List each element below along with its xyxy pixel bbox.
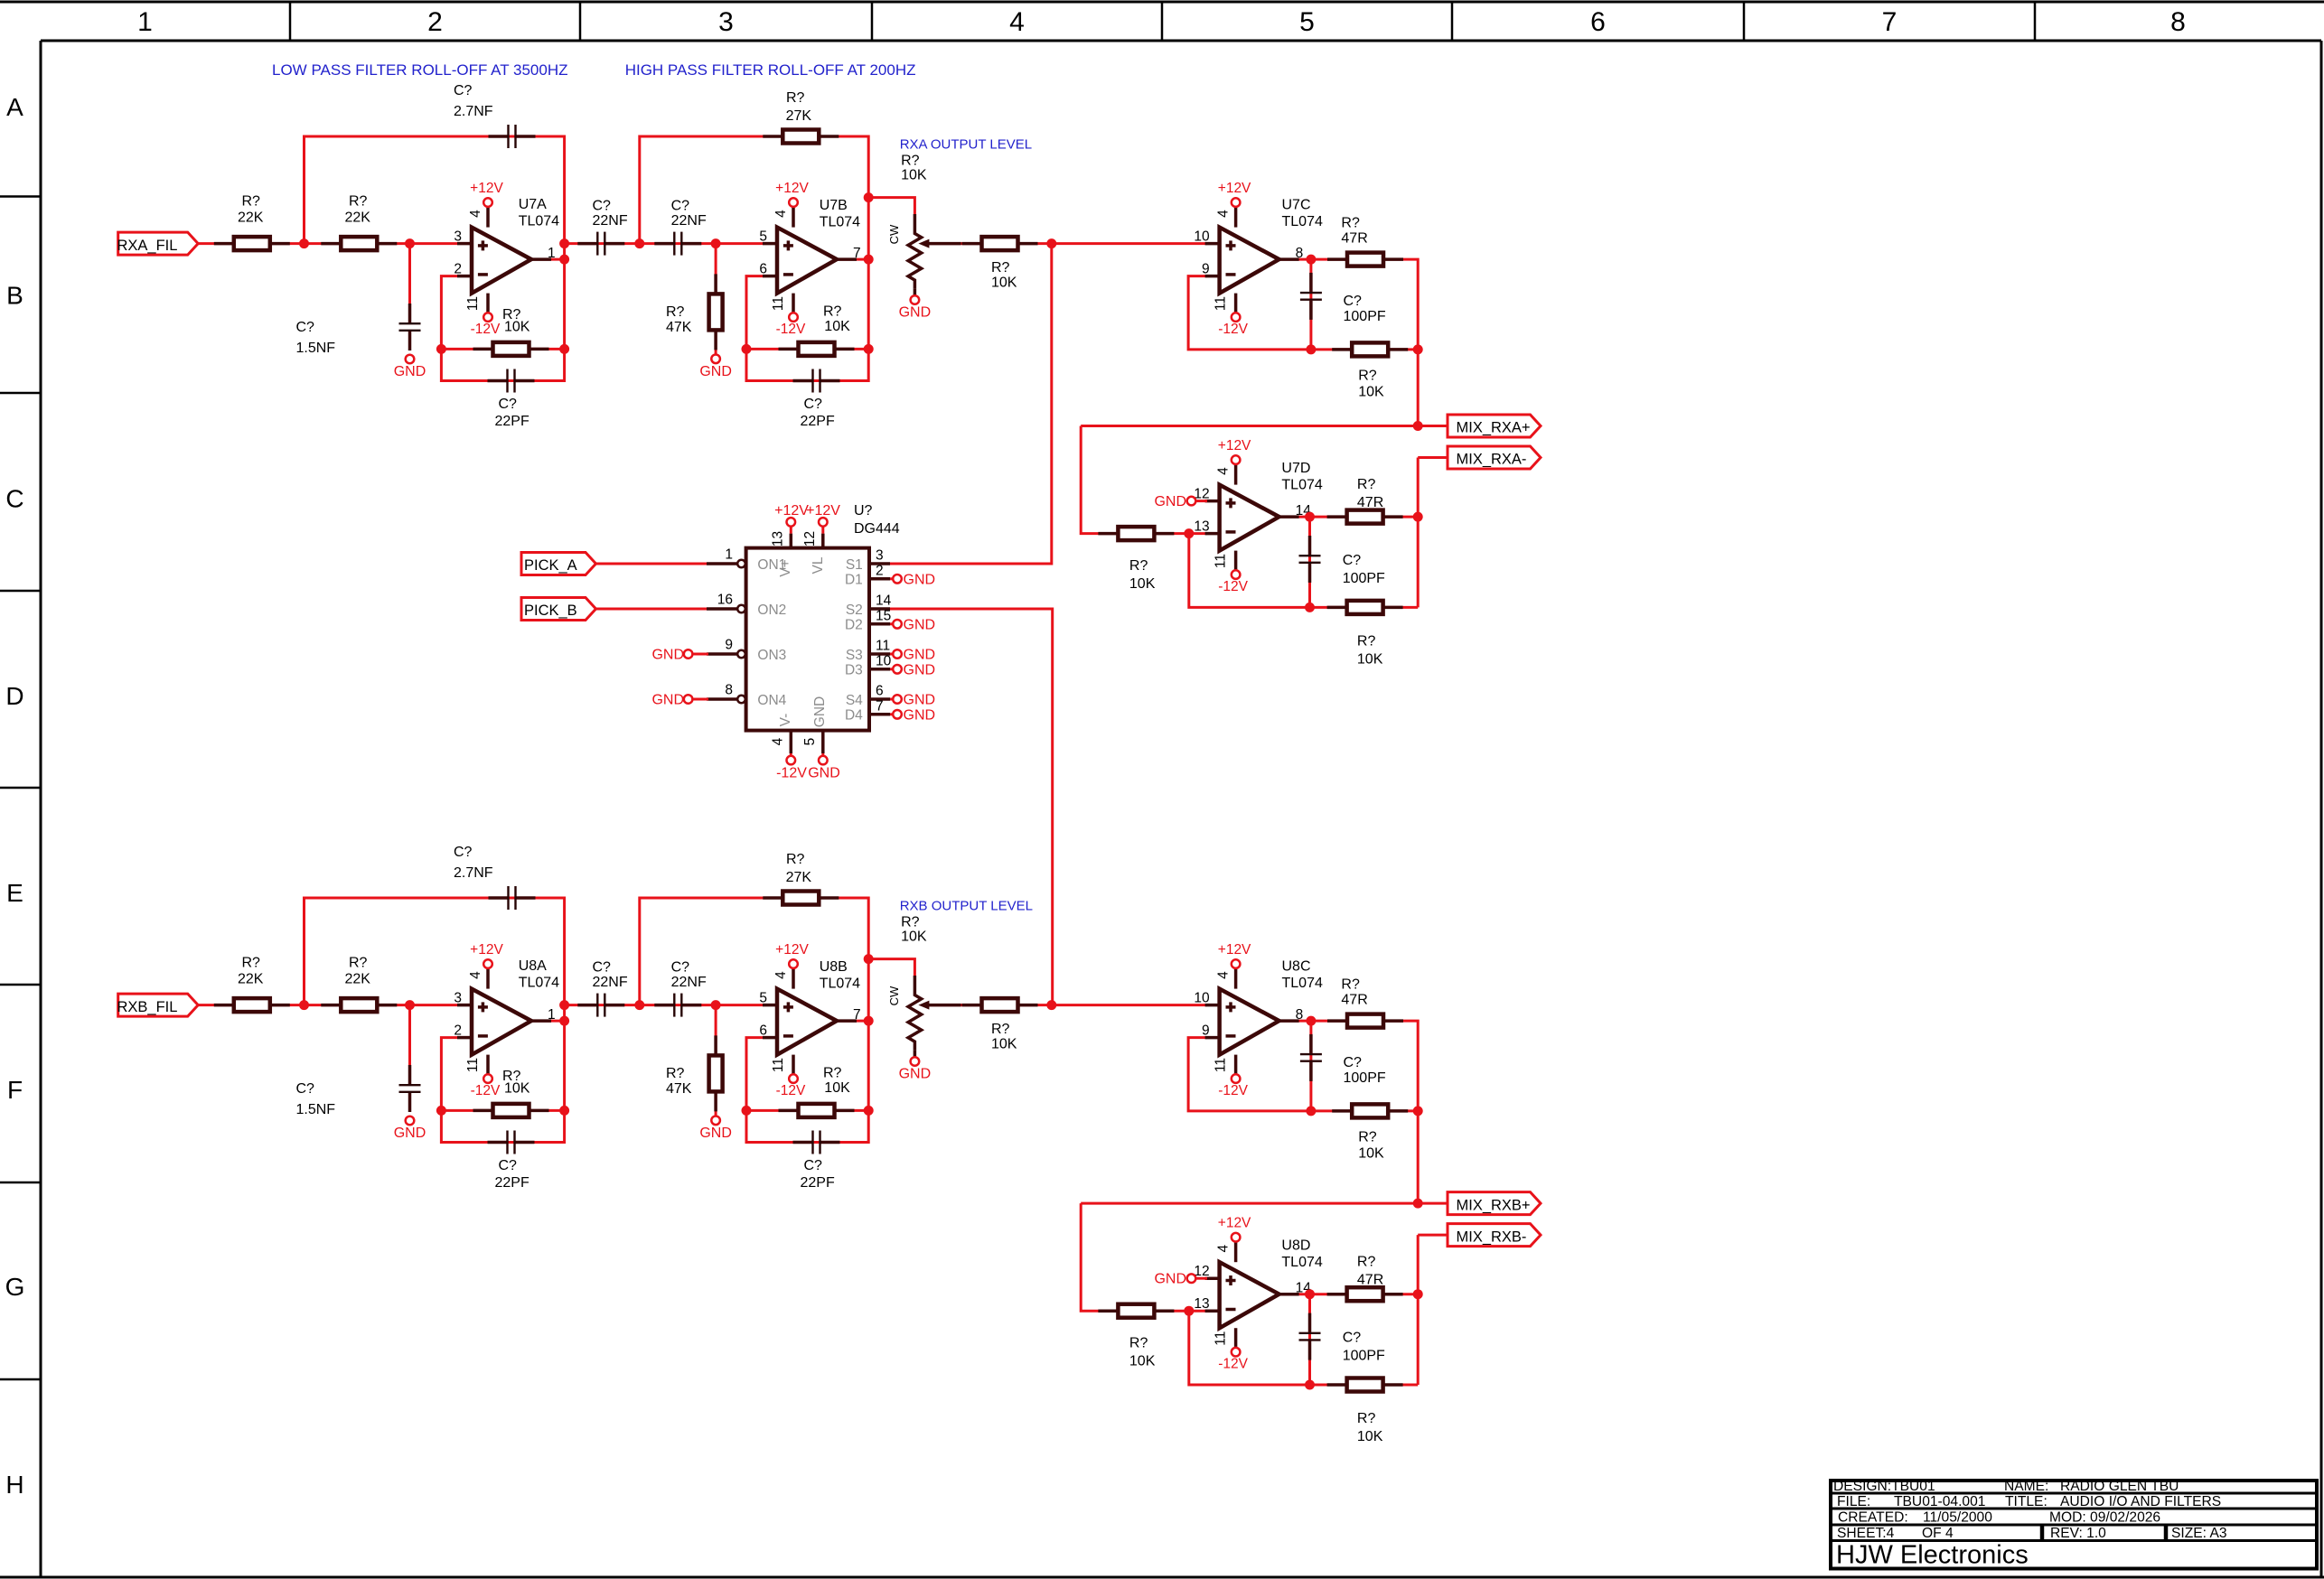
svg-text:E: E bbox=[6, 879, 23, 907]
svg-text:PICK_B: PICK_B bbox=[524, 603, 577, 619]
svg-text:8: 8 bbox=[2170, 7, 2186, 37]
potentiometer R? 10K (RXB OUTPUT LEVEL) bbox=[887, 915, 961, 1057]
capacitor C? 1.5NF (RXB shunt) bbox=[296, 1065, 421, 1117]
wire U7D compensation cap branch bbox=[1308, 517, 1311, 607]
svg-text:3: 3 bbox=[454, 991, 462, 1006]
svg-text:22NF: 22NF bbox=[593, 213, 628, 229]
svg-text:GND: GND bbox=[904, 693, 936, 708]
svg-text:GND: GND bbox=[808, 766, 840, 781]
svg-text:S4: S4 bbox=[846, 693, 863, 708]
svg-text:D2: D2 bbox=[845, 618, 863, 633]
svg-text:10K: 10K bbox=[1129, 576, 1156, 592]
wire summing node to U7C input bbox=[1052, 242, 1207, 245]
svg-text:11: 11 bbox=[1214, 296, 1229, 311]
svg-text:4: 4 bbox=[468, 971, 483, 979]
svg-text:47K: 47K bbox=[666, 1081, 692, 1097]
wire stage2 feedback resistor branch (RXB2) bbox=[746, 1109, 868, 1112]
svg-text:TITLE:: TITLE: bbox=[2005, 1494, 2048, 1509]
svg-text:LOW PASS FILTER ROLL-OFF AT 35: LOW PASS FILTER ROLL-OFF AT 3500HZ bbox=[272, 61, 568, 79]
wire pot wiper to summing node (RXB) bbox=[927, 1004, 1052, 1006]
svg-text:3: 3 bbox=[876, 548, 884, 564]
comment text HIGH PASS FILTER ROLL-OFF AT 200HZ bbox=[625, 61, 916, 79]
svg-text:TL074: TL074 bbox=[820, 215, 860, 230]
resistor R? 10K (U7C feedback) bbox=[1332, 342, 1408, 399]
svg-text:D1: D1 bbox=[845, 573, 863, 588]
svg-text:U8D: U8D bbox=[1281, 1238, 1310, 1254]
svg-text:4: 4 bbox=[1216, 971, 1232, 979]
svg-text:10K: 10K bbox=[824, 319, 850, 334]
U? pin 15 (D2) bbox=[869, 608, 891, 624]
op-amp U7A TL074 bbox=[454, 181, 559, 337]
port MIX_RXA+ bbox=[1448, 415, 1541, 437]
svg-text:GND: GND bbox=[904, 617, 936, 632]
svg-text:MIX_RXB-: MIX_RXB- bbox=[1457, 1229, 1527, 1245]
svg-text:+12V: +12V bbox=[775, 181, 809, 196]
svg-text:R?: R? bbox=[991, 260, 1010, 276]
svg-text:B: B bbox=[6, 282, 23, 310]
svg-text:10K: 10K bbox=[901, 168, 927, 183]
port PICK_B bbox=[521, 598, 596, 621]
resistor R? 10K (U7A feedback) bbox=[473, 307, 549, 356]
svg-text:47R: 47R bbox=[1341, 231, 1367, 247]
svg-text:TL074: TL074 bbox=[1281, 478, 1322, 493]
svg-text:D4: D4 bbox=[845, 708, 863, 724]
svg-text:RXA_FIL: RXA_FIL bbox=[117, 238, 178, 254]
ground at C? 1.5NF (RXB) bbox=[394, 1117, 426, 1141]
sheet inner frame left edge bbox=[40, 41, 42, 1577]
wire U7D feedback bottom loop bbox=[1189, 534, 1418, 608]
wire MIX_RXA- net bbox=[1418, 456, 1448, 459]
svg-text:10K: 10K bbox=[1358, 1146, 1384, 1162]
svg-text:22PF: 22PF bbox=[801, 1175, 835, 1191]
svg-text:GND: GND bbox=[394, 1126, 426, 1141]
svg-text:REV: 1.0: REV: 1.0 bbox=[2050, 1526, 2106, 1541]
svg-text:C?: C? bbox=[1343, 1331, 1362, 1346]
wire U8D feedback bottom loop bbox=[1189, 1311, 1418, 1385]
svg-text:GND: GND bbox=[699, 1126, 732, 1141]
wire stage1 feedback resistor branch (RXB1) bbox=[441, 1109, 564, 1112]
svg-text:6: 6 bbox=[759, 261, 767, 276]
svg-text:HJW Electronics: HJW Electronics bbox=[1836, 1541, 2029, 1570]
svg-text:C: C bbox=[5, 485, 23, 513]
port MIX_RXA- bbox=[1448, 446, 1541, 469]
resistor R? 10K (RXB pot series) bbox=[962, 998, 1038, 1051]
svg-text:R?: R? bbox=[242, 194, 261, 210]
svg-text:C?: C? bbox=[1344, 1055, 1363, 1070]
wire stage2 feedback loop (RXA2) bbox=[640, 136, 868, 381]
capacitor C? 100PF (U8C) bbox=[1300, 1034, 1386, 1086]
port MIX_RXB+ bbox=[1448, 1192, 1541, 1215]
wire level pot top feed (RXB) bbox=[868, 959, 914, 976]
title block frame bbox=[1831, 1481, 2317, 1569]
capacitor C? 22NF (RXA coupling second) bbox=[654, 198, 707, 255]
resistor R? 47R (U8C output) bbox=[1327, 977, 1403, 1028]
resistor R? 10K (U8C feedback) bbox=[1332, 1104, 1408, 1161]
svg-text:5: 5 bbox=[1299, 7, 1315, 37]
U? pin 4 (V-) bbox=[770, 731, 791, 753]
ground on U? pin 7 bbox=[890, 707, 935, 723]
svg-text:S3: S3 bbox=[846, 648, 863, 663]
svg-text:C?: C? bbox=[671, 959, 690, 975]
svg-text:47R: 47R bbox=[1357, 1273, 1383, 1288]
ground on U? pin 10 bbox=[890, 662, 935, 677]
svg-text:4: 4 bbox=[773, 971, 789, 979]
svg-text:16: 16 bbox=[717, 593, 733, 608]
sheet border bottom line bbox=[0, 1576, 2324, 1579]
svg-text:47R: 47R bbox=[1357, 495, 1383, 510]
svg-text:V+: V+ bbox=[778, 559, 793, 576]
wire U7A output to node bbox=[531, 258, 565, 261]
svg-text:9: 9 bbox=[1202, 1023, 1210, 1038]
svg-text:GND: GND bbox=[1154, 1272, 1186, 1287]
svg-text:6: 6 bbox=[759, 1023, 767, 1038]
ground on U? pin 11 bbox=[890, 648, 935, 663]
ground on U? pin 6 bbox=[890, 693, 935, 708]
port PICK_A bbox=[521, 553, 596, 575]
svg-text:7: 7 bbox=[853, 1007, 861, 1023]
capacitor C? 100PF (U8D) bbox=[1299, 1313, 1386, 1364]
wire U8C feedback branch bbox=[1188, 1038, 1418, 1111]
wire stage2 feedback resistor branch (RXA2) bbox=[746, 348, 868, 350]
svg-text:-12V: -12V bbox=[471, 322, 501, 337]
ground at C? 1.5NF (RXA) bbox=[394, 355, 426, 379]
svg-text:+12V: +12V bbox=[1218, 942, 1251, 958]
ground on U? pin 9 bbox=[651, 648, 708, 663]
U? pin 8 (ON4) bbox=[707, 683, 745, 704]
svg-text:+12V: +12V bbox=[1218, 181, 1251, 196]
svg-text:U7C: U7C bbox=[1282, 198, 1311, 213]
wire shunt capacitor drop (RXA) bbox=[408, 244, 411, 307]
ground at U7D pin 12 bbox=[1154, 494, 1207, 509]
wire stage2 feedback loop (RXB2) bbox=[640, 898, 868, 1143]
svg-text:22PF: 22PF bbox=[495, 414, 529, 429]
power -12V on U? pin 4 bbox=[776, 753, 807, 781]
svg-text:13: 13 bbox=[1194, 1296, 1209, 1312]
svg-text:C?: C? bbox=[1343, 553, 1362, 568]
svg-text:10: 10 bbox=[1194, 991, 1210, 1006]
svg-text:-12V: -12V bbox=[1218, 322, 1248, 337]
wire stage1 feedback resistor branch (RXA1) bbox=[441, 348, 564, 350]
resistor R? 10K (U8A feedback) bbox=[473, 1069, 549, 1117]
svg-text:8: 8 bbox=[725, 683, 733, 698]
svg-text:MIX_RXB+: MIX_RXB+ bbox=[1457, 1197, 1531, 1213]
sheet inner frame right edge bbox=[2320, 41, 2323, 1577]
U? pin 11 (S3) bbox=[869, 639, 890, 655]
op-amp U7B TL074 bbox=[759, 181, 860, 337]
svg-text:22PF: 22PF bbox=[495, 1175, 529, 1191]
svg-text:11: 11 bbox=[1214, 1331, 1229, 1346]
svg-text:6: 6 bbox=[1590, 7, 1606, 37]
ground at potentiometer (RXB) bbox=[899, 1057, 932, 1081]
title block row DESIGN / NAME bbox=[1833, 1479, 2179, 1494]
svg-text:SHEET:4: SHEET:4 bbox=[1837, 1526, 1895, 1541]
svg-text:R?: R? bbox=[1357, 634, 1376, 649]
svg-text:R?: R? bbox=[1357, 1411, 1376, 1426]
svg-text:+12V: +12V bbox=[775, 942, 809, 958]
wire inverter input branch (RXA) bbox=[1081, 426, 1207, 534]
capacitor C? 22NF (RXB coupling second) bbox=[654, 959, 707, 1016]
svg-text:11: 11 bbox=[465, 296, 481, 311]
capacitor C? 100PF (U7C) bbox=[1300, 273, 1386, 324]
IC U? DG444 body bbox=[746, 548, 869, 731]
svg-text:4: 4 bbox=[1216, 1245, 1232, 1253]
svg-text:+12V: +12V bbox=[470, 181, 503, 196]
capacitor C? 100PF (U7D) bbox=[1299, 536, 1386, 586]
capacitor C? 22NF (RXA coupling first) bbox=[577, 198, 628, 255]
svg-text:14: 14 bbox=[876, 593, 892, 609]
svg-text:3: 3 bbox=[454, 229, 462, 245]
svg-text:4: 4 bbox=[468, 210, 483, 218]
svg-text:13: 13 bbox=[770, 531, 785, 547]
svg-text:R?: R? bbox=[786, 852, 805, 867]
svg-text:-12V: -12V bbox=[1218, 579, 1248, 594]
power +12V on U? pin 13 bbox=[774, 503, 809, 534]
ground on U? pin 2 bbox=[890, 572, 935, 587]
svg-text:GND: GND bbox=[904, 707, 936, 723]
svg-text:A: A bbox=[6, 93, 23, 121]
svg-text:5: 5 bbox=[759, 991, 767, 1006]
svg-text:4: 4 bbox=[773, 210, 789, 218]
svg-text:2.7NF: 2.7NF bbox=[454, 104, 493, 119]
comment text RXB OUTPUT LEVEL bbox=[900, 899, 1033, 914]
svg-text:R?: R? bbox=[242, 956, 261, 971]
svg-text:1.5NF: 1.5NF bbox=[296, 1102, 336, 1117]
border column numbers 1-8 bbox=[137, 7, 2186, 37]
svg-text:11: 11 bbox=[465, 1058, 481, 1072]
svg-text:22PF: 22PF bbox=[801, 414, 835, 429]
ground at U8D pin 12 bbox=[1154, 1272, 1207, 1287]
svg-text:CW: CW bbox=[887, 224, 901, 244]
svg-text:FILE:: FILE: bbox=[1837, 1494, 1870, 1509]
svg-text:2: 2 bbox=[454, 261, 462, 276]
svg-text:SIZE: A3: SIZE: A3 bbox=[2171, 1526, 2227, 1541]
svg-text:11: 11 bbox=[1214, 1058, 1229, 1072]
svg-text:RXB OUTPUT LEVEL: RXB OUTPUT LEVEL bbox=[900, 899, 1033, 914]
ground at R? 47K (RXA) bbox=[699, 355, 732, 379]
U? pin 2 (D1) bbox=[869, 563, 890, 579]
comment text LOW PASS FILTER ROLL-OFF AT 3500HZ bbox=[272, 61, 568, 79]
svg-text:10K: 10K bbox=[504, 320, 530, 335]
U? pin 5 (GND) bbox=[802, 731, 823, 753]
svg-text:RXB_FIL: RXB_FIL bbox=[117, 999, 178, 1015]
title block row CREATED / MOD bbox=[1838, 1510, 2160, 1526]
wire PICK_B to U? pin 16 bbox=[594, 608, 723, 611]
svg-text:11/05/2000: 11/05/2000 bbox=[1923, 1510, 1992, 1526]
U? pin 3 (S1) bbox=[869, 548, 890, 565]
power +12V on U? pin 12 bbox=[806, 503, 840, 534]
svg-text:6: 6 bbox=[876, 684, 884, 699]
svg-text:R?: R? bbox=[666, 304, 685, 320]
svg-text:+12V: +12V bbox=[1218, 438, 1251, 453]
svg-text:10K: 10K bbox=[1357, 1429, 1383, 1444]
svg-text:R?: R? bbox=[1341, 216, 1360, 231]
wire U? S2 to RXB summing node bbox=[890, 609, 1053, 1005]
op-amp U7D TL074 bbox=[1194, 438, 1323, 594]
svg-text:2: 2 bbox=[427, 7, 443, 37]
svg-text:R?: R? bbox=[786, 90, 805, 106]
svg-text:8: 8 bbox=[1296, 246, 1304, 261]
svg-text:TL074: TL074 bbox=[1282, 214, 1323, 229]
svg-text:2.7NF: 2.7NF bbox=[454, 865, 493, 881]
svg-text:TL074: TL074 bbox=[519, 976, 559, 991]
svg-text:15: 15 bbox=[876, 608, 891, 623]
svg-text:11: 11 bbox=[876, 639, 890, 654]
svg-text:1: 1 bbox=[137, 7, 153, 37]
resistor R? 27K (RXA stage2 feedback) bbox=[763, 90, 839, 144]
svg-text:1: 1 bbox=[725, 547, 733, 563]
wire U8A output to node bbox=[531, 1020, 565, 1023]
op-amp U8A TL074 bbox=[454, 942, 559, 1098]
svg-text:+12V: +12V bbox=[470, 942, 503, 958]
op-amp U7C TL074 bbox=[1194, 181, 1323, 337]
svg-text:7: 7 bbox=[1882, 7, 1898, 37]
svg-text:PICK_A: PICK_A bbox=[524, 557, 577, 574]
svg-text:GND: GND bbox=[904, 662, 936, 677]
svg-text:1: 1 bbox=[548, 246, 556, 261]
title block company name bbox=[1836, 1541, 2029, 1570]
svg-text:2: 2 bbox=[454, 1023, 462, 1038]
svg-text:22NF: 22NF bbox=[671, 213, 707, 229]
svg-text:ON4: ON4 bbox=[757, 693, 786, 708]
svg-text:D: D bbox=[5, 682, 23, 710]
svg-text:F: F bbox=[7, 1076, 23, 1104]
svg-text:TL074: TL074 bbox=[1281, 1255, 1322, 1270]
wire shunt resistor drop (RXB) bbox=[715, 1005, 717, 1116]
port MIX_RXB- bbox=[1448, 1224, 1541, 1247]
svg-text:C?: C? bbox=[296, 320, 315, 335]
svg-text:8: 8 bbox=[1296, 1007, 1304, 1023]
svg-text:ON3: ON3 bbox=[757, 648, 786, 663]
svg-text:-12V: -12V bbox=[776, 322, 806, 337]
svg-text:GND: GND bbox=[651, 648, 684, 663]
title block row SHEET / REV / SIZE bbox=[1837, 1526, 2227, 1541]
capacitor C? 1.5NF (RXA shunt) bbox=[296, 304, 421, 356]
svg-text:9: 9 bbox=[1202, 261, 1210, 276]
svg-text:U8B: U8B bbox=[820, 959, 848, 975]
U? DG444 designator label bbox=[854, 503, 900, 537]
comment text RXA OUTPUT LEVEL bbox=[900, 137, 1032, 153]
svg-text:TL074: TL074 bbox=[820, 976, 860, 992]
svg-text:C?: C? bbox=[454, 83, 473, 98]
wire U8C compensation cap branch bbox=[1309, 1021, 1312, 1111]
svg-text:U7A: U7A bbox=[519, 197, 547, 212]
U? pin 6 (S4) bbox=[869, 684, 890, 700]
svg-text:DG444: DG444 bbox=[854, 521, 900, 537]
svg-text:R?: R? bbox=[1357, 1255, 1376, 1270]
svg-text:22K: 22K bbox=[345, 972, 371, 987]
svg-text:CREATED:: CREATED: bbox=[1838, 1510, 1908, 1526]
svg-text:22K: 22K bbox=[238, 210, 264, 226]
svg-text:HIGH PASS FILTER ROLL-OFF AT 2: HIGH PASS FILTER ROLL-OFF AT 200HZ bbox=[625, 61, 916, 79]
U? pin 16 (ON2) bbox=[707, 593, 745, 613]
capacitor C? 22PF (U7B feedback) bbox=[793, 369, 840, 430]
junction dots channel RXB bbox=[299, 954, 1423, 1389]
svg-text:C?: C? bbox=[499, 397, 518, 412]
svg-text:GND: GND bbox=[904, 648, 936, 663]
wire U7C output branch bbox=[1279, 259, 1419, 425]
resistor R? 22K (RXA input first) bbox=[214, 194, 290, 251]
svg-text:-12V: -12V bbox=[1218, 1357, 1248, 1372]
svg-text:GND: GND bbox=[651, 693, 684, 708]
svg-text:10: 10 bbox=[1194, 229, 1210, 245]
resistor R? 47K (RXA shunt) bbox=[666, 274, 723, 350]
wire U8C output branch bbox=[1279, 1021, 1419, 1203]
svg-text:R?: R? bbox=[823, 304, 842, 320]
svg-text:10K: 10K bbox=[901, 930, 927, 945]
svg-text:22NF: 22NF bbox=[671, 975, 707, 990]
ground on U? pin 15 bbox=[890, 617, 935, 632]
svg-text:S2: S2 bbox=[846, 603, 863, 618]
svg-text:GND: GND bbox=[899, 1067, 932, 1082]
svg-text:G: G bbox=[5, 1273, 25, 1301]
svg-text:+12V: +12V bbox=[1218, 1216, 1251, 1231]
svg-text:100PF: 100PF bbox=[1343, 571, 1385, 586]
svg-text:-12V: -12V bbox=[1218, 1083, 1248, 1098]
svg-text:22K: 22K bbox=[238, 972, 264, 987]
svg-text:C?: C? bbox=[671, 198, 690, 213]
svg-text:TL074: TL074 bbox=[1282, 976, 1323, 991]
resistor R? 22K (RXB input first) bbox=[214, 956, 290, 1013]
svg-text:-12V: -12V bbox=[471, 1083, 501, 1098]
svg-text:4: 4 bbox=[770, 737, 785, 745]
resistor R? 47R (U7D output) bbox=[1327, 477, 1403, 524]
U? pin 1 (ON1) bbox=[707, 547, 745, 568]
svg-text:C?: C? bbox=[499, 1158, 518, 1173]
resistor R? 10K (U7B feedback) bbox=[779, 304, 855, 356]
svg-text:U7D: U7D bbox=[1281, 461, 1310, 476]
resistor R? 10K (U8B feedback) bbox=[779, 1066, 855, 1117]
svg-text:D3: D3 bbox=[845, 663, 863, 678]
svg-text:ON2: ON2 bbox=[757, 603, 786, 618]
svg-text:C?: C? bbox=[593, 959, 612, 975]
svg-text:13: 13 bbox=[1194, 519, 1209, 534]
svg-text:22K: 22K bbox=[345, 210, 371, 226]
svg-text:1.5NF: 1.5NF bbox=[296, 341, 336, 356]
svg-text:U8A: U8A bbox=[519, 958, 547, 974]
wire stage1 feedback loop (RXB1) bbox=[305, 898, 565, 1143]
port RXA_FIL bbox=[117, 232, 199, 255]
svg-text:MOD: 09/02/2026: MOD: 09/02/2026 bbox=[2049, 1510, 2160, 1526]
svg-text:R?: R? bbox=[349, 194, 368, 210]
svg-text:DESIGN:TBU01: DESIGN:TBU01 bbox=[1833, 1479, 1935, 1494]
U? pin 9 (ON3) bbox=[707, 638, 745, 659]
wire U? S1 to RXA summing node bbox=[890, 244, 1052, 564]
svg-text:100PF: 100PF bbox=[1344, 1070, 1386, 1086]
svg-text:10K: 10K bbox=[1358, 385, 1384, 400]
wire MIX_RXB- net bbox=[1418, 1234, 1448, 1237]
svg-text:CW: CW bbox=[887, 986, 901, 1005]
svg-text:MIX_RXA+: MIX_RXA+ bbox=[1457, 420, 1531, 436]
ground on U? pin 8 bbox=[651, 693, 708, 708]
wire stage1 feedback loop (RXA1) bbox=[305, 136, 565, 381]
wire inverter input branch (RXB) bbox=[1081, 1203, 1207, 1311]
wire U8D output branch bbox=[1279, 1235, 1419, 1385]
svg-text:47R: 47R bbox=[1341, 993, 1367, 1008]
resistor R? 47K (RXB shunt) bbox=[666, 1035, 723, 1111]
title block row FILE / TITLE bbox=[1837, 1494, 2221, 1509]
svg-text:10K: 10K bbox=[991, 1037, 1017, 1052]
svg-text:9: 9 bbox=[725, 638, 733, 653]
svg-text:47K: 47K bbox=[666, 320, 692, 335]
resistor R? 10K (U7D feedback) bbox=[1327, 601, 1403, 668]
sheet row tick marks bbox=[0, 197, 41, 1380]
svg-text:OF 4: OF 4 bbox=[1922, 1526, 1954, 1541]
wire shunt capacitor drop (RXB) bbox=[408, 1005, 411, 1069]
wire U7C compensation cap branch bbox=[1309, 259, 1312, 350]
svg-text:2: 2 bbox=[876, 563, 884, 578]
svg-text:27K: 27K bbox=[786, 108, 812, 124]
svg-text:C?: C? bbox=[1344, 294, 1363, 309]
